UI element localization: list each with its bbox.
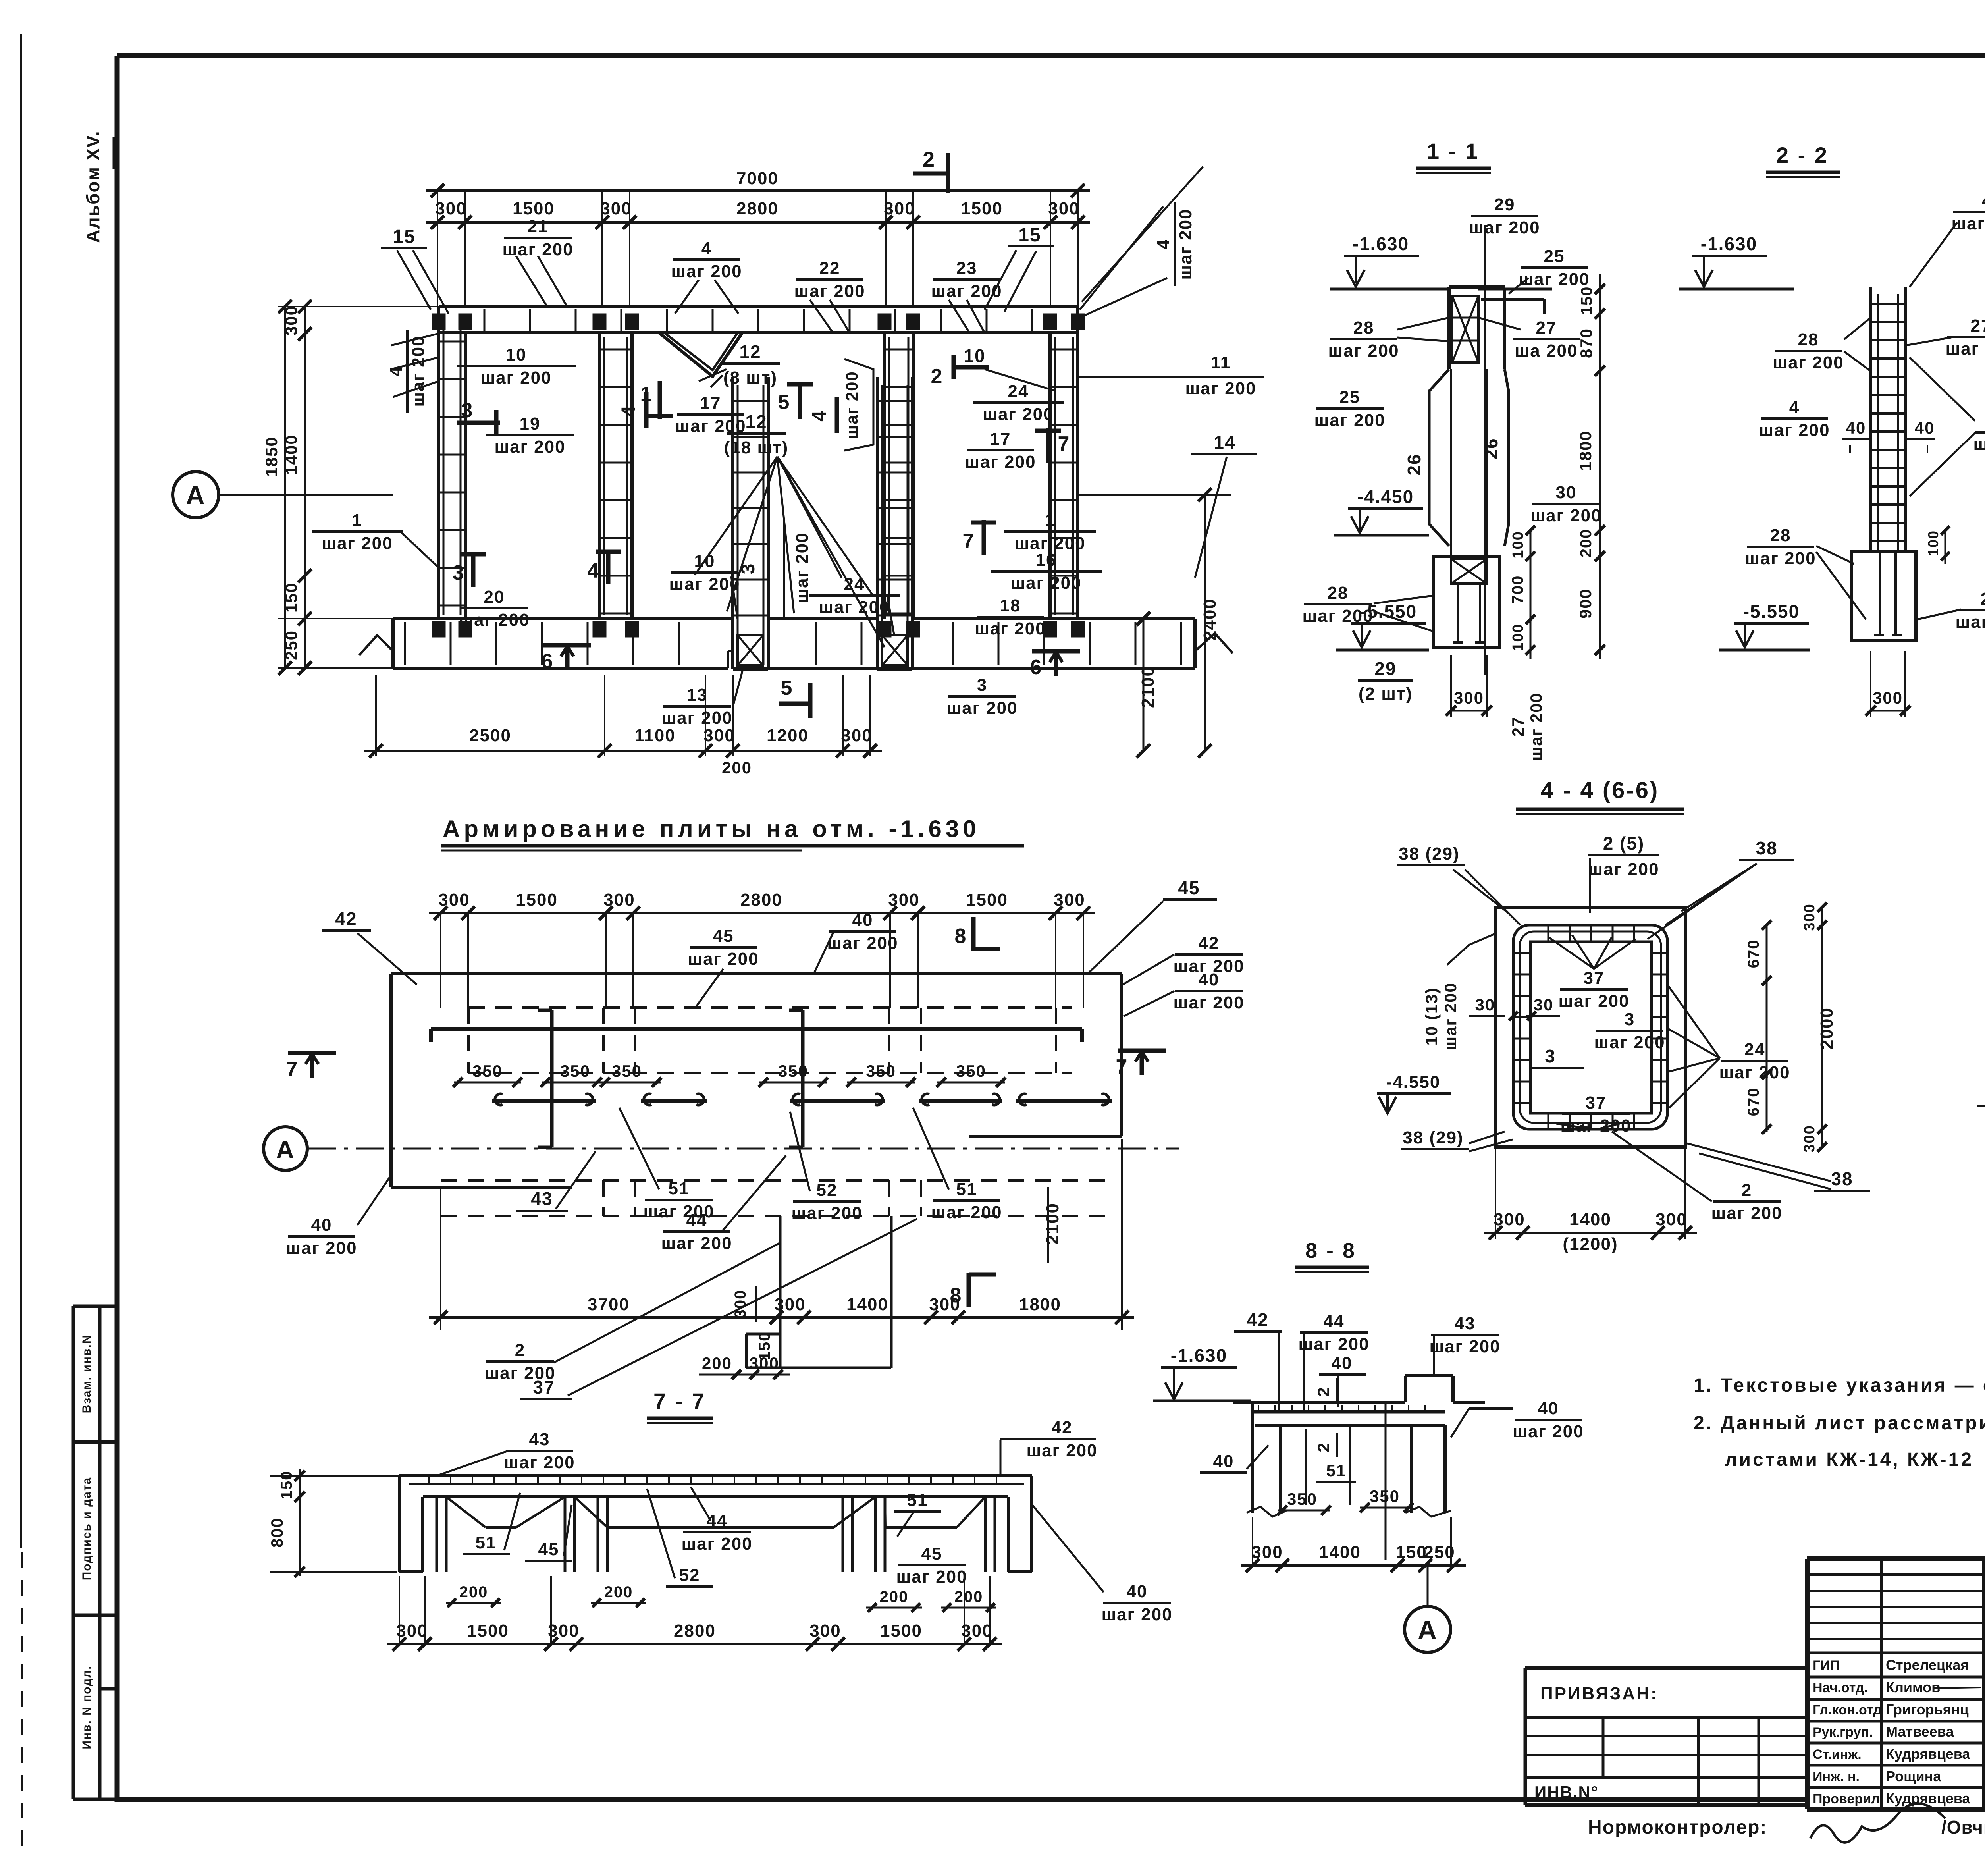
svg-text:шаг 200: шаг 200 [1101,1605,1172,1624]
svg-text:-5.550: -5.550 [1743,601,1800,622]
svg-text:шаг 200: шаг 200 [322,534,393,553]
plan section mark 2 + label 10 room2 [953,365,989,370]
svg-text:300: 300 [732,1290,749,1319]
sec7-7 left dims [299,1469,301,1576]
svg-text:шаг 200: шаг 200 [494,437,565,457]
svg-text:44: 44 [1324,1311,1345,1331]
plan: wall W1 [437,307,440,619]
svg-text:6: 6 [542,650,554,673]
plan section mark 3 room1 [457,421,500,425]
sec1-1 dim 300 bottom [1451,710,1487,712]
svg-text:10: 10 [964,345,985,366]
svg-text:350: 350 [956,1062,986,1080]
svg-text:51: 51 [956,1180,977,1199]
svg-text:37: 37 [1584,968,1605,988]
svg-text:51: 51 [476,1533,497,1552]
svg-text:-1.630: -1.630 [1701,233,1757,254]
sec4-4 wall stirrup ticks [1513,952,1530,954]
sec8-8 mid verticals [1349,1425,1351,1505]
svg-text:300: 300 [548,1621,579,1641]
svg-text:300: 300 [435,199,466,218]
svg-text:1500: 1500 [516,890,558,910]
svg-text:38: 38 [1831,1168,1853,1189]
svg-text:шаг 200: шаг 200 [1026,1441,1097,1460]
svg-text:-1.630: -1.630 [1171,1345,1227,1366]
svg-text:27: 27 [1971,316,1985,335]
svg-text:1850: 1850 [262,436,281,476]
svg-text:11: 11 [1211,353,1231,372]
svg-text:2: 2 [1314,1386,1333,1396]
svg-text:17: 17 [700,393,721,413]
svg-text:3: 3 [977,675,987,695]
svg-text:3: 3 [461,399,474,422]
svg-text:1500: 1500 [966,890,1008,910]
svg-text:шаг 200: шаг 200 [1719,1063,1790,1082]
svg-text:шаг 200: шаг 200 [480,368,551,388]
svg-text:8 - 8: 8 - 8 [1305,1239,1356,1263]
svg-text:шаг 200: шаг 200 [669,575,740,594]
mplan heavy top bar [431,1027,1082,1031]
svg-text:шаг 200: шаг 200 [1513,1422,1584,1441]
plan section mark 6 right [1032,649,1080,654]
svg-text:29: 29 [1374,658,1396,679]
sec8-8 slab band [1233,1401,1405,1404]
plan rotated mark 4 left [644,392,649,428]
svg-text:шаг 200: шаг 200 [504,1453,575,1472]
svg-text:шаг 200: шаг 200 [1530,506,1601,525]
svg-text:шаг 200: шаг 200 [688,949,759,969]
svg-text:шаг 200: шаг 200 [983,405,1054,424]
svg-text:шаг 200: шаг 200 [794,281,865,301]
svg-text:300: 300 [961,1621,992,1641]
svg-text:19: 19 [520,414,541,434]
svg-text:38 (29): 38 (29) [1399,844,1459,864]
svg-text:1: 1 [352,511,362,530]
svg-text:42: 42 [1052,1418,1073,1437]
sec1-1 column upper [1447,287,1451,369]
svg-text:4: 4 [617,405,640,417]
svg-text:Армирование плиты на: Армирование плиты на отм. -1.630 [443,816,980,842]
plan: middle opening with V notch [632,331,885,334]
svg-text:23: 23 [956,258,977,278]
sec8-8 axis circle A [1427,1566,1429,1606]
svg-text:2500: 2500 [469,726,511,745]
mplan vertical C bar 1 [550,1010,554,1147]
svg-text:2800: 2800 [674,1621,716,1641]
plan section mark 7 right [982,520,986,555]
svg-text:51: 51 [1326,1461,1347,1480]
sec4-4 box outer [1495,907,1685,1147]
svg-text:7: 7 [963,530,975,553]
plan: strip B hatched core [882,635,908,665]
sec1-1 widened shaft [1429,369,1449,546]
svg-text:шаг 200: шаг 200 [792,532,812,603]
svg-text:2000: 2000 [1817,1007,1837,1049]
svg-text:28: 28 [1328,583,1349,603]
svg-text:2800: 2800 [736,199,779,218]
sec2-2 foundation [1851,552,1916,640]
drawing frame border [117,53,1985,58]
svg-text:Ст.инж.: Ст.инж. [1813,1747,1862,1762]
svg-text:27: 27 [1536,318,1557,337]
svg-text:2: 2 [931,365,943,388]
svg-text:шаг 200: шаг 200 [1185,379,1256,398]
svg-text:шаг 200: шаг 200 [286,1238,357,1258]
svg-text:51: 51 [669,1179,690,1198]
svg-text:300: 300 [884,199,915,218]
svg-text:52: 52 [679,1566,700,1585]
svg-text:40: 40 [1213,1452,1234,1471]
svg-text:200: 200 [1577,529,1595,558]
svg-text:2: 2 [515,1340,525,1360]
titleblock thin top rows [1807,1573,1985,1576]
svg-text:350: 350 [560,1062,590,1080]
svg-text:870: 870 [1577,328,1596,358]
svg-text:4: 4 [1789,397,1800,417]
svg-text:38 (29): 38 (29) [1403,1128,1463,1147]
svg-text:150: 150 [1578,286,1596,315]
svg-text:1500: 1500 [467,1621,509,1641]
svg-text:38: 38 [1756,838,1777,858]
svg-text:1: 1 [1045,511,1055,530]
svg-text:40: 40 [1538,1399,1559,1418]
plan: wall W2 [598,333,601,619]
svg-text:10: 10 [694,551,715,571]
plan: top wall band [439,305,1078,308]
svg-text:шаг 200: шаг 200 [842,371,861,439]
svg-text:800: 800 [268,1517,286,1548]
svg-text:670: 670 [1745,939,1762,968]
svg-text:Инв. N подл.: Инв. N подл. [80,1665,93,1749]
svg-text:2400: 2400 [1200,598,1220,640]
svg-text:18: 18 [1000,596,1021,615]
mplan section mark 7 left [288,1051,336,1055]
plan: wall W3 [883,333,886,619]
plan: axis A circle [173,472,219,518]
svg-text:шаг 200: шаг 200 [791,1203,862,1223]
mplan section mark 8 top [971,917,976,951]
svg-text:350: 350 [612,1062,642,1080]
sec7-7 bottom dims [387,1643,1002,1645]
svg-text:44: 44 [686,1211,707,1230]
sec1-1 top L bar [1478,288,1552,291]
svg-text:300: 300 [703,726,735,745]
svg-text:16: 16 [1036,550,1057,570]
svg-text:45: 45 [713,926,734,946]
plan section mark 5 lower [808,683,813,718]
svg-text:Матвеева: Матвеева [1886,1724,1954,1740]
svg-text:5: 5 [778,391,790,414]
plan: segmented dimension row 300/1500/300/2800/300/1500/300 [426,221,1090,224]
svg-text:20: 20 [484,587,505,607]
svg-text:300: 300 [841,726,872,745]
svg-text:листами КЖ-14, КЖ-12: листами КЖ-14, КЖ-12 [1725,1449,1973,1470]
svg-text:40: 40 [852,910,873,930]
plan section mark 1 [658,381,662,419]
svg-text:37: 37 [533,1377,555,1398]
frame bottom left part [117,1797,1807,1802]
svg-text:Кудрявцева: Кудрявцева [1886,1790,1970,1807]
svg-text:Стрелецкая: Стрелецкая [1886,1657,1969,1673]
svg-text:шаг 200: шаг 200 [661,1234,732,1253]
svg-text:Проверил: Проверил [1813,1791,1880,1807]
svg-text:26: 26 [1404,453,1424,475]
svg-text:ГИП: ГИП [1813,1658,1840,1673]
svg-text:25: 25 [1339,388,1361,407]
svg-text:300: 300 [888,890,919,910]
svg-text:14: 14 [1214,432,1235,453]
sec4-4 bottom dims [1484,1232,1697,1234]
plan diag leaders left walls [391,334,439,345]
svg-text:300: 300 [396,1621,428,1641]
svg-text:2800: 2800 [740,890,782,910]
svg-text:300: 300 [809,1621,841,1641]
svg-text:30: 30 [1475,995,1495,1014]
svg-text:17: 17 [990,429,1011,449]
svg-text:350: 350 [1370,1487,1400,1506]
svg-text:7 - 7: 7 - 7 [653,1388,706,1413]
sec8-8 bottom dims [1241,1564,1466,1567]
svg-text:8: 8 [955,925,967,948]
svg-text:300: 300 [1251,1542,1283,1562]
svg-text:42: 42 [1247,1309,1268,1330]
plan section mark 3 lower [471,552,476,587]
svg-text:Инж. н.: Инж. н. [1813,1769,1860,1784]
svg-text:40: 40 [1915,418,1935,437]
svg-text:4: 4 [386,366,406,376]
mplan slab outline [391,972,1122,975]
svg-text:12: 12 [745,411,767,432]
svg-text:24: 24 [844,575,865,594]
svg-text:300: 300 [749,1354,779,1373]
svg-text:шаг 200: шаг 200 [819,598,890,617]
svg-text:Кудрявцева: Кудрявцева [1886,1746,1970,1762]
svg-text:ша 200: ша 200 [1515,341,1578,361]
svg-text:150: 150 [278,1471,295,1500]
plan section mark 4 lower [606,550,611,584]
mplan centerline axis A [264,1127,307,1170]
svg-text:шаг 200: шаг 200 [1527,692,1546,761]
svg-text:27: 27 [1509,717,1527,737]
svg-text:2100: 2100 [1043,1203,1062,1245]
svg-text:шаг 200: шаг 200 [1298,1334,1369,1354]
sec4-4 box inner [1530,942,1652,1113]
svg-text:4 - 4 (6-6): 4 - 4 (6-6) [1541,777,1659,803]
svg-text:шаг 200: шаг 200 [1469,218,1540,237]
svg-text:шаг 200: шаг 200 [975,619,1046,638]
svg-text:1200: 1200 [767,726,809,745]
svg-text:28: 28 [1353,318,1374,337]
svg-text:шаг 200: шаг 200 [1745,549,1816,568]
svg-text:4: 4 [808,410,830,422]
svg-text:шаг 200: шаг 200 [1973,434,1985,454]
svg-text:шаг 200: шаг 200 [459,610,530,630]
sec4-4 box middle [1513,925,1667,1129]
privyazan table [1525,1666,1807,1670]
plan: room 2 outline [913,333,1050,619]
plan: section 2 cut marker top [913,172,949,176]
plan: top band stirrup ticks [438,309,440,331]
sec8-8 right wall [1410,1425,1413,1513]
svg-text:2 (5): 2 (5) [1603,833,1645,854]
svg-text:4: 4 [588,559,600,582]
svg-text:100: 100 [1510,623,1526,651]
svg-text:Григорьянц: Григорьянц [1886,1701,1969,1718]
svg-text:700: 700 [1509,575,1526,604]
svg-text:Рук.груп.: Рук.груп. [1813,1725,1873,1740]
svg-text:3700: 3700 [588,1295,630,1314]
svg-text:40: 40 [311,1215,332,1235]
svg-text:300: 300 [774,1295,806,1314]
svg-text:7000: 7000 [736,169,779,188]
svg-text:200: 200 [702,1354,732,1373]
svg-text:1 - 1: 1 - 1 [1427,139,1479,164]
svg-text:200: 200 [459,1583,488,1601]
svg-text:Взам. инв.N: Взам. инв.N [80,1334,93,1413]
sec7-7 right hook wall [1030,1476,1033,1572]
svg-text:шаг 200: шаг 200 [1594,1033,1665,1052]
sec7-7 wall pairs below [436,1497,438,1572]
svg-text:300: 300 [1801,1125,1818,1152]
svg-text:51: 51 [907,1490,928,1510]
sec7-7 left hook wall [398,1476,401,1572]
svg-text:150: 150 [1395,1542,1427,1562]
svg-text:40: 40 [1332,1353,1353,1373]
svg-text:300: 300 [1801,903,1818,931]
svg-text:шаг 200: шаг 200 [1588,860,1659,879]
plan: left dimension chain [304,307,306,668]
svg-text:1400: 1400 [846,1295,888,1314]
sec1-1 inner dim col [1530,530,1532,659]
plan: bottom band [393,617,733,620]
svg-text:1800: 1800 [1576,430,1595,470]
svg-text:шаг 200: шаг 200 [1945,339,1985,359]
svg-text:/Овчинников С.А./: /Овчинников С.А./ [1941,1817,1985,1837]
svg-text:7: 7 [1058,432,1070,455]
plan: bottom band stirrups [404,622,406,665]
svg-text:Рощина: Рощина [1886,1768,1941,1784]
svg-text:43: 43 [531,1188,553,1209]
sec8-8 left wall [1251,1402,1254,1513]
svg-text:200: 200 [954,1588,983,1606]
svg-text:5: 5 [781,677,793,700]
mplan lower dashed band [441,1179,1116,1182]
mplan section mark 8 bottom [967,1273,971,1307]
svg-text:10: 10 [506,345,527,364]
svg-text:1500: 1500 [513,199,555,218]
svg-text:шаг 200: шаг 200 [827,933,898,953]
mplan lower stub [779,1216,782,1368]
svg-text:15: 15 [1018,225,1041,246]
svg-text:шаг 200: шаг 200 [1711,1203,1782,1223]
svg-text:670: 670 [1745,1087,1762,1116]
svg-text:шаг 200: шаг 200 [1328,341,1399,361]
plan: bottom dimension row [364,750,882,752]
svg-text:А: А [1418,1615,1438,1645]
svg-text:1400: 1400 [1569,1210,1611,1229]
svg-text:2. Данный лист рассматр: 2. Данный лист рассматривать совместно с [1694,1413,1985,1434]
svg-text:300: 300 [1655,1210,1687,1229]
svg-text:А: А [276,1136,295,1164]
sec2-2 column ladder [1869,287,1872,552]
svg-text:350: 350 [778,1062,808,1080]
svg-text:27: 27 [1981,589,1985,609]
svg-text:1800: 1800 [1019,1295,1061,1314]
svg-text:37: 37 [1586,1093,1607,1112]
outer sheet edge line left [20,34,22,1548]
svg-text:200: 200 [722,758,752,777]
mplan: top dimension row [429,912,1095,914]
svg-text:Гл.кон.отд: Гл.кон.отд [1813,1702,1882,1718]
svg-text:4: 4 [701,239,712,258]
svg-text:4: 4 [1154,239,1173,249]
svg-text:42: 42 [335,908,357,929]
sec7-7 slab hatch ticks [428,1477,430,1484]
svg-text:7: 7 [286,1058,299,1081]
svg-text:300: 300 [1454,688,1484,707]
plan: strip A hatched core [738,635,763,665]
titleblock staff rows [1807,1652,1985,1654]
svg-text:Нач.отд.: Нач.отд. [1813,1680,1868,1695]
svg-text:2: 2 [1742,1180,1752,1200]
svg-text:15: 15 [393,226,415,247]
sec7-7 slab [399,1474,1032,1477]
svg-text:шаг 200: шаг 200 [409,335,428,407]
svg-text:шаг 200: шаг 200 [661,708,732,728]
svg-text:(8 шт): (8 шт) [723,368,777,388]
svg-text:шаг 200: шаг 200 [1429,1337,1500,1356]
svg-text:30: 30 [1534,995,1554,1014]
svg-text:шаг 200: шаг 200 [931,1203,1002,1222]
svg-text:45: 45 [1178,877,1200,898]
mplan vertical C bar 2 [801,1010,805,1147]
svg-text:2: 2 [923,148,935,172]
svg-text:200: 200 [604,1583,633,1601]
titleblock outer [1807,1556,1985,1561]
plan: overall dimension 7000 [426,189,1090,192]
svg-text:-1.630: -1.630 [1353,233,1409,254]
sec1-1 stirrup core upper [1452,296,1478,362]
svg-text:шаг 200: шаг 200 [1558,991,1629,1011]
svg-text:шаг 200: шаг 200 [965,452,1036,472]
svg-text:3: 3 [453,561,465,584]
svg-text:28: 28 [1798,330,1819,349]
svg-text:(1200): (1200) [1563,1234,1618,1254]
left stamp boxes [72,1306,75,1799]
svg-text:24: 24 [1008,382,1029,401]
svg-text:40: 40 [1199,970,1220,989]
svg-text:А: А [186,480,206,510]
svg-text:26: 26 [1481,438,1501,459]
svg-text:13: 13 [687,685,708,705]
sec2-2 dim 300 [1871,710,1905,712]
svg-text:22: 22 [819,258,840,278]
svg-text:Климов: Климов [1886,1679,1940,1695]
svg-text:шаг 200: шаг 200 [1955,612,1985,632]
svg-text:28: 28 [1770,526,1791,545]
plan rotated mark 4 right [835,397,839,433]
svg-text:100: 100 [1510,531,1526,558]
mplan bottom dimension row [429,1316,1134,1319]
svg-text:шаг 200: шаг 200 [1176,208,1195,280]
svg-text:30: 30 [1556,483,1577,502]
svg-text:1500: 1500 [880,1621,922,1641]
svg-text:шаг 200: шаг 200 [681,1534,752,1554]
svg-text:шаг 200: шаг 200 [1010,573,1081,593]
sec1-1 right dim chain [1599,274,1601,659]
svg-text:Нормоконтролер:: Нормоконтролер: [1588,1817,1767,1838]
svg-text:24: 24 [1744,1040,1765,1059]
